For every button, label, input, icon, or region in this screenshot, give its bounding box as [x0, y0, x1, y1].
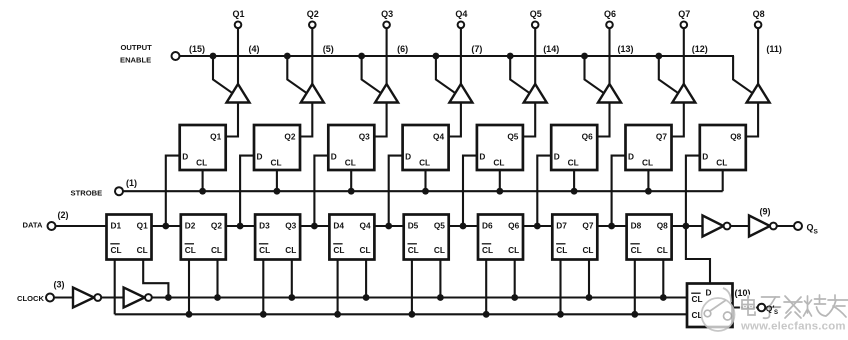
wire enable tap to buffer U1 — [213, 56, 233, 93]
svg-text:CL: CL — [631, 245, 642, 255]
svg-text:CL: CL — [259, 245, 270, 255]
svg-text:D: D — [706, 288, 712, 298]
wire buffer U6 input from latch L6 Q — [596, 103, 609, 137]
svg-text:D: D — [182, 152, 188, 162]
junction strobe tap 6 — [571, 188, 578, 195]
wire latch L6 D input — [537, 156, 551, 226]
inverter U9 — [73, 288, 94, 308]
svg-text:Q2: Q2 — [307, 9, 319, 19]
wire FF4 CLbar pin — [337, 260, 339, 315]
svg-text:CL: CL — [482, 245, 493, 255]
svg-text:www.elecfans.com: www.elecfans.com — [740, 321, 846, 333]
terminal Q1 — [235, 22, 242, 29]
decorative watermark — [702, 288, 848, 333]
svg-text:(9): (9) — [760, 207, 771, 217]
wire Q1 terminal to buffer U1 output — [237, 28, 239, 84]
tri-state buffer U2 — [301, 84, 324, 103]
junction Q8 node — [683, 223, 690, 230]
svg-text:Q2: Q2 — [211, 220, 222, 230]
wire enable tap to buffer U2 — [287, 56, 307, 93]
wire Q3 to FF4 D — [300, 225, 329, 227]
svg-text:Q8: Q8 — [730, 132, 741, 142]
tri-state buffer U5 — [524, 84, 547, 103]
flip-flop FF8 box — [627, 215, 672, 260]
wire buffer U5 input from latch L5 Q — [522, 103, 535, 137]
terminal QprimeS pin 10 — [758, 304, 766, 312]
flip-flop FF7 box — [552, 215, 597, 260]
wire clock input — [54, 296, 74, 298]
wire Q8 to serial buffers — [672, 225, 703, 227]
junction CLbar bus tap FF3 — [260, 311, 267, 318]
wire output-enable bus — [180, 55, 735, 57]
wire FF3 CLbar pin — [262, 260, 264, 315]
wire Q2 terminal to buffer U2 output — [311, 28, 313, 84]
svg-text:D: D — [479, 152, 485, 162]
svg-text:Q3: Q3 — [285, 220, 296, 230]
wire inverter U9 to U10 — [101, 296, 123, 298]
svg-text:D: D — [257, 152, 263, 162]
svg-text:CL: CL — [582, 245, 593, 255]
svg-text:Q4: Q4 — [455, 9, 467, 19]
wire latch L4 D input — [389, 156, 403, 226]
wire strobe bus — [123, 190, 723, 192]
junction OE tap 4 — [433, 53, 440, 60]
svg-text:D: D — [331, 152, 337, 162]
latch L7 box — [626, 125, 672, 170]
wire enable tap to buffer U8 — [733, 56, 753, 93]
wire latch L3 CL to strobe — [350, 170, 352, 191]
wire FF3 CL pin — [291, 260, 293, 298]
wire FF7 CLbar pin — [559, 260, 561, 315]
wire FF5 CL pin — [439, 260, 441, 298]
inverter U10 — [124, 288, 145, 308]
svg-text:CL: CL — [568, 158, 579, 168]
flip-flop FF1 box — [107, 215, 152, 260]
junction OE tap 7 — [655, 53, 662, 60]
junction CLbar bus tap FF6 — [483, 311, 490, 318]
tri-state buffer U7 — [672, 84, 695, 103]
svg-text:D2: D2 — [185, 220, 196, 230]
latch L6 box — [551, 125, 597, 170]
wire Q1 to FF2 D — [152, 225, 181, 227]
terminal OUTPUT ENABLE pin 15 — [172, 52, 180, 60]
svg-text:CLOCK: CLOCK — [17, 294, 45, 303]
tri-state buffer U1 — [227, 84, 250, 103]
wire Q2 to FF3 D — [226, 225, 255, 227]
wire enable tap to buffer U6 — [585, 56, 605, 93]
wire latch L2 D input — [240, 156, 254, 226]
junction Q2 node — [237, 223, 244, 230]
svg-text:Q5: Q5 — [507, 132, 518, 142]
wire FF6 CL pin — [514, 260, 516, 298]
wire latch L2 CL to strobe — [276, 170, 278, 191]
svg-text:CL: CL — [211, 245, 222, 255]
wire buffer U8 input from latch L8 Q — [745, 103, 758, 137]
wire Q6 to FF7 D — [523, 225, 552, 227]
wire latch L7 D input — [612, 156, 626, 226]
wire Q4 to FF5 D — [374, 225, 403, 227]
svg-text:S: S — [814, 229, 819, 236]
svg-text:(6): (6) — [397, 44, 408, 54]
junction Q5 node — [460, 223, 467, 230]
wire buffer U7 input from latch L7 Q — [671, 103, 684, 137]
latch L8 box — [700, 125, 746, 170]
wire inverter U11 to U12 — [730, 225, 749, 227]
svg-text:CL: CL — [692, 294, 703, 304]
junction OE tap 5 — [507, 53, 514, 60]
svg-text:CL: CL — [419, 158, 430, 168]
latch L1 box — [180, 125, 226, 170]
tri-state buffer U8 — [747, 84, 770, 103]
terminal STROBE pin 1 — [115, 187, 123, 195]
inverter U12 — [749, 216, 770, 237]
terminal Q8 — [755, 22, 762, 29]
wire enable tap to buffer U5 — [510, 56, 530, 93]
junction OE tap 2 — [284, 53, 291, 60]
junction clock bus tap FF7 — [586, 294, 593, 301]
wire latch L3 D input — [314, 156, 328, 226]
wire latch L5 CL to strobe — [499, 170, 501, 191]
wire FF10 output — [733, 306, 781, 308]
svg-text:CL: CL — [270, 158, 281, 168]
junction strobe tap 3 — [348, 188, 355, 195]
svg-text:Q1: Q1 — [232, 9, 244, 19]
wire enable tap to buffer U4 — [436, 56, 456, 93]
terminal QS pin 9 — [794, 222, 802, 230]
svg-text:CL: CL — [508, 245, 519, 255]
junction clock bus tap FF6 — [511, 294, 518, 301]
svg-text:D5: D5 — [408, 220, 419, 230]
wire buffer U2 input from latch L2 Q — [299, 103, 312, 137]
latch L2 box — [254, 125, 300, 170]
svg-text:Q6: Q6 — [508, 220, 519, 230]
wire FF2 CL pin — [216, 260, 218, 298]
junction CLbar bus tap FF5 — [409, 311, 416, 318]
wire FF1 CLbar pin — [114, 260, 116, 315]
svg-text:CL: CL — [434, 245, 445, 255]
terminal Q2 — [309, 22, 316, 29]
junction OE tap 3 — [358, 53, 365, 60]
junction Q7 node — [608, 223, 615, 230]
junction Q3 node — [311, 223, 318, 230]
wire enable tap to buffer U7 — [659, 56, 679, 93]
terminal Q5 — [532, 22, 539, 29]
wire enable tap to buffer U3 — [362, 56, 382, 93]
latch L3 box — [328, 125, 374, 170]
svg-text:STROBE: STROBE — [71, 189, 103, 198]
junction clock bus tap FF5 — [437, 294, 444, 301]
inverter U11 — [703, 216, 724, 237]
junction clock bus tap FF4 — [363, 294, 370, 301]
latch L4 box — [403, 125, 449, 170]
tri-state buffer U4 — [449, 84, 472, 103]
wire FF1 CL pin jog — [143, 260, 168, 298]
wire latch L5 D input — [463, 156, 477, 226]
svg-text:Q7: Q7 — [678, 9, 690, 19]
svg-text:(1): (1) — [126, 178, 137, 188]
svg-text:D: D — [702, 152, 708, 162]
svg-text:CL: CL — [360, 245, 371, 255]
junction clock bus at inverter output — [165, 294, 172, 301]
wire Q3 terminal to buffer U3 output — [386, 28, 388, 84]
svg-text:Q4: Q4 — [360, 220, 371, 230]
svg-text:D4: D4 — [333, 220, 344, 230]
svg-text:D8: D8 — [631, 220, 642, 230]
wire latch L1 D input — [166, 156, 180, 226]
wire latch L7 CL to strobe — [647, 170, 649, 191]
svg-text:(4): (4) — [249, 44, 260, 54]
svg-text:CL: CL — [196, 158, 207, 168]
wire Q5 terminal to buffer U5 output — [534, 28, 536, 84]
svg-text:OUTPUT: OUTPUT — [121, 43, 153, 52]
junction clock bus tap FF8 — [660, 294, 667, 301]
junction CLbar bus tap FF8 — [631, 311, 638, 318]
junction strobe tap 1 — [199, 188, 206, 195]
svg-text:D7: D7 — [556, 220, 567, 230]
wire latch L8 D input — [686, 156, 700, 226]
svg-text:CL: CL — [345, 158, 356, 168]
svg-text:Q8: Q8 — [657, 220, 668, 230]
svg-text:(12): (12) — [692, 44, 708, 54]
junction strobe tap 2 — [274, 188, 281, 195]
flip-flop FF4 box — [329, 215, 374, 260]
junction Q1 node — [162, 223, 169, 230]
svg-text:CL: CL — [333, 245, 344, 255]
terminal DATA pin 2 — [48, 222, 56, 230]
wire FF5 CLbar pin — [411, 260, 413, 315]
wire Q7 to FF8 D — [597, 225, 626, 227]
wire Q4 terminal to buffer U4 output — [460, 28, 462, 84]
wire clock bus — [152, 296, 687, 298]
junction CLbar bus tap FF4 — [334, 311, 341, 318]
svg-text:Q7: Q7 — [656, 132, 667, 142]
wire FF7 CL pin — [588, 260, 590, 298]
svg-text:D: D — [628, 152, 634, 162]
junction OE tap 6 — [581, 53, 588, 60]
svg-text:Q5: Q5 — [434, 220, 445, 230]
wire FF4 CL pin — [365, 260, 367, 298]
svg-text:Q4: Q4 — [433, 132, 444, 142]
terminal Q4 — [458, 22, 465, 29]
svg-text:(3): (3) — [54, 280, 65, 290]
tri-state buffer U6 — [598, 84, 621, 103]
wire buffer U4 input from latch L4 Q — [448, 103, 461, 137]
wire buffer U1 input from latch L1 Q — [225, 103, 238, 137]
svg-text:D: D — [554, 152, 560, 162]
wire Q7 terminal to buffer U7 output — [683, 28, 685, 84]
svg-text:CL: CL — [716, 158, 727, 168]
wire latch L1 CL to strobe — [202, 170, 204, 191]
svg-text:Q5: Q5 — [530, 9, 542, 19]
svg-text:Q2: Q2 — [284, 132, 295, 142]
flip-flop FF6 box — [478, 215, 523, 260]
svg-text:Q1: Q1 — [210, 132, 221, 142]
svg-text:Q1: Q1 — [137, 220, 148, 230]
wire latch L4 CL to strobe — [424, 170, 426, 191]
svg-text:Q8: Q8 — [753, 9, 765, 19]
junction clock bus tap FF3 — [288, 294, 295, 301]
svg-text:(14): (14) — [543, 44, 559, 54]
flip-flop FF10 box — [687, 284, 733, 328]
svg-text:DATA: DATA — [23, 221, 43, 230]
svg-text:Q6: Q6 — [604, 9, 616, 19]
wire FF8 CL pin — [662, 260, 664, 298]
svg-text:(7): (7) — [471, 44, 482, 54]
svg-text:Q: Q — [807, 223, 814, 233]
junction strobe tap 4 — [422, 188, 429, 195]
tri-state buffer U3 — [375, 84, 398, 103]
flip-flop FF2 box — [181, 215, 226, 260]
svg-text:CL: CL — [556, 245, 567, 255]
svg-text:CL: CL — [642, 158, 653, 168]
junction OE tap 1 — [210, 53, 217, 60]
wire data input — [55, 225, 107, 227]
latch L5 box — [477, 125, 523, 170]
svg-text:CL: CL — [111, 245, 122, 255]
svg-text:Q7: Q7 — [582, 220, 593, 230]
wire FF2 CLbar pin — [188, 260, 190, 315]
terminal Q6 — [606, 22, 613, 29]
wire buffer U3 input from latch L3 Q — [373, 103, 386, 137]
wire latch L6 CL to strobe — [573, 170, 575, 191]
svg-text:ENABLE: ENABLE — [120, 56, 151, 65]
terminal CLOCK pin 3 — [46, 294, 54, 302]
wire FF6 CLbar pin — [485, 260, 487, 315]
svg-text:CL: CL — [185, 245, 196, 255]
svg-text:CL: CL — [493, 158, 504, 168]
wire Q6 terminal to buffer U6 output — [608, 28, 610, 84]
svg-text:Q3: Q3 — [359, 132, 370, 142]
terminal Q3 — [383, 22, 390, 29]
svg-text:Q3: Q3 — [381, 9, 393, 19]
wire FF8 CLbar pin — [634, 260, 636, 315]
wire inverted clock bus — [115, 313, 687, 315]
junction CLbar bus tap FF2 — [186, 311, 193, 318]
svg-text:Q6: Q6 — [582, 132, 593, 142]
wire latch L8 CL to strobe — [722, 170, 724, 191]
svg-text:S: S — [774, 310, 778, 316]
svg-text:CL: CL — [137, 245, 148, 255]
svg-text:(5): (5) — [323, 44, 334, 54]
svg-text:(13): (13) — [617, 44, 633, 54]
svg-text:(2): (2) — [58, 210, 69, 220]
svg-text:(15): (15) — [189, 44, 205, 54]
junction strobe tap 7 — [645, 188, 652, 195]
junction clock bus tap FF2 — [214, 294, 221, 301]
svg-text:CL: CL — [657, 245, 668, 255]
junction CLbar bus tap FF7 — [557, 311, 564, 318]
svg-text:D1: D1 — [111, 220, 122, 230]
svg-text:CL: CL — [285, 245, 296, 255]
svg-text:D3: D3 — [259, 220, 270, 230]
wire Q5 to FF6 D — [449, 225, 478, 227]
wire Q8 node to FF10 D — [686, 226, 710, 284]
svg-text:CL: CL — [408, 245, 419, 255]
junction Q4 node — [385, 223, 392, 230]
terminal Q7 — [681, 22, 688, 29]
svg-text:D6: D6 — [482, 220, 493, 230]
flip-flop FF3 box — [255, 215, 300, 260]
junction strobe tap 5 — [496, 188, 503, 195]
junction Q6 node — [534, 223, 541, 230]
svg-text:(11): (11) — [766, 44, 782, 54]
svg-text:D: D — [405, 152, 411, 162]
wire to QS terminal — [777, 225, 795, 227]
wire Q8 terminal to buffer U8 output — [757, 28, 759, 84]
flip-flop FF5 box — [404, 215, 449, 260]
